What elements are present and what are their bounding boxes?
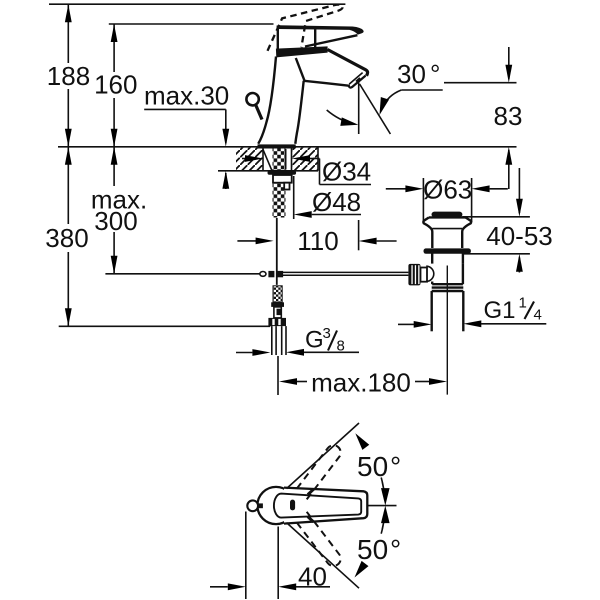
drain body mid: [426, 264, 463, 285]
drain tailpipe: [432, 291, 464, 331]
drain gasket: [424, 248, 471, 253]
380 bottom reference line: [59, 325, 271, 327]
faucet spout outlet face: [348, 73, 365, 88]
svg-text:G: G: [305, 327, 324, 354]
dimension 83: [444, 47, 517, 189]
top view cartridge mark: [290, 500, 295, 511]
G3/8 nut: [268, 318, 286, 326]
drain waste cap: [432, 212, 463, 218]
dimension 110: [237, 220, 396, 250]
drain flange: [423, 217, 471, 248]
mounting deck top line: [58, 146, 517, 148]
dimension Ø34 leader: [242, 155, 371, 184]
top view tick marks: [308, 489, 314, 522]
label Ø63: [423, 175, 472, 205]
deck hatch right: [292, 148, 319, 170]
dimension G3/8 leader: [236, 349, 359, 356]
svg-text:40: 40: [298, 562, 327, 592]
angle axis line upper: [287, 423, 360, 489]
spout angle leg vertical: [358, 83, 360, 135]
faucet base bottom edge: [258, 144, 296, 148]
base skirt lines in hole: [263, 149, 286, 170]
spout angle leg slanted: [360, 84, 391, 134]
dimension Ø63: [386, 178, 508, 222]
top view dashed lever lower: [295, 512, 340, 566]
deck hole wall left: [262, 147, 264, 171]
top view lever outer: [284, 488, 367, 524]
dimension G1 1/4 leader: [398, 320, 546, 327]
top view dashed lever upper: [295, 445, 340, 499]
threaded pipe G3/8: [272, 326, 286, 355]
spout top reference line: [109, 23, 274, 25]
svg-text:380: 380: [45, 223, 88, 253]
svg-text:40-53: 40-53: [486, 221, 553, 251]
dimension 160/max300 line: [111, 24, 118, 274]
top view knob: [247, 500, 263, 511]
label Ø34: [322, 157, 371, 187]
svg-text:4: 4: [534, 307, 542, 324]
label max.30 with leader: [144, 81, 229, 190]
label Ø48: [312, 187, 361, 217]
top view centerline: [367, 505, 396, 507]
label 83: [494, 101, 523, 131]
arc 50 upper: [352, 431, 390, 506]
label G1 1/4: [484, 295, 542, 325]
svg-text:110: 110: [297, 226, 338, 256]
deck hatch left: [236, 148, 263, 170]
deck hole wall right: [291, 147, 293, 171]
svg-text:1: 1: [519, 295, 527, 312]
faucet spout top edge: [328, 50, 368, 76]
drain coupling: [432, 284, 464, 291]
drain centerline: [446, 266, 448, 395]
label 380: [45, 223, 88, 253]
svg-text:50: 50: [357, 534, 388, 565]
dimension 40-53: [462, 168, 530, 273]
svg-text:188: 188: [47, 61, 90, 91]
svg-text:max.30: max.30: [144, 81, 229, 111]
label 40-53: [486, 221, 553, 251]
svg-text:83: 83: [494, 101, 523, 131]
svg-text:max.180: max.180: [311, 368, 411, 398]
max300 bottom reference / pop-up rod line: [105, 272, 408, 275]
top reference line: [49, 3, 345, 5]
label max.180: [311, 368, 411, 398]
top view body: [257, 487, 294, 524]
dimension 40: [210, 512, 330, 600]
threaded shank: [273, 149, 286, 218]
label 188: [47, 61, 90, 91]
horseshoe washer: [268, 171, 297, 175]
svg-text:°: °: [390, 534, 401, 565]
drain upper body: [432, 254, 463, 264]
svg-text:Ø48: Ø48: [312, 187, 361, 217]
pop-up rod cross joint: [260, 271, 283, 277]
svg-text:°: °: [430, 59, 440, 89]
label 50 upper: [357, 451, 401, 482]
label 30 degrees: [375, 59, 442, 116]
supply hose braided: [273, 286, 282, 303]
drain side knob: [408, 264, 427, 286]
dimension max.180: [278, 356, 447, 395]
faucet cartridge collar: [276, 46, 328, 57]
svg-text:8: 8: [337, 338, 345, 355]
swivel arc arrow: [327, 110, 359, 129]
svg-text:50: 50: [357, 451, 388, 482]
svg-text:Ø34: Ø34: [322, 157, 371, 187]
faucet handle dashed position: [268, 5, 343, 51]
mounting nut: [273, 175, 292, 190]
top view lever inner: [274, 494, 361, 518]
label 110: [297, 226, 338, 256]
svg-text:G1: G1: [484, 297, 516, 324]
faucet handle solid: [278, 25, 364, 50]
hose fitting: [271, 302, 284, 318]
svg-text:30: 30: [397, 59, 426, 89]
label 50 lower: [357, 534, 401, 565]
label G3/8: [305, 325, 345, 355]
label 40: [298, 562, 327, 592]
dimension Ø48 leader: [294, 176, 361, 219]
angle axis line lower: [287, 523, 360, 589]
arc 50 lower: [351, 506, 390, 580]
label 160: [94, 70, 137, 100]
svg-text:Ø63: Ø63: [423, 175, 472, 205]
svg-text:300: 300: [94, 206, 137, 236]
mounting deck bottom line: [218, 147, 318, 171]
pop-up rod knob: [246, 93, 262, 120]
label max.300: [91, 185, 147, 237]
faucet body: [258, 57, 350, 144]
svg-text:3: 3: [323, 325, 331, 342]
dimension 188/380 line: [65, 4, 72, 326]
pop-up rod: [276, 218, 278, 285]
svg-text:°: °: [390, 451, 401, 482]
svg-text:160: 160: [94, 70, 137, 100]
